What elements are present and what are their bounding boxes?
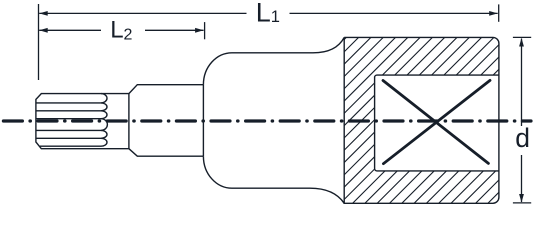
square drive hole left edge: [374, 78, 376, 169]
spline end arc 6: [101, 138, 107, 146]
holder outline bottom: [129, 149, 204, 157]
spline line 6: [40, 145, 101, 147]
centerline: [1, 119, 531, 122]
arrow L2 left: [39, 28, 48, 33]
spline line 5: [37, 137, 102, 139]
square drive hole bottom edge: [375, 169, 499, 171]
spline line 4: [37, 129, 102, 131]
extension line L2 right: [204, 22, 206, 39]
s-curve bottom: [310, 188, 344, 203]
bit body outline: [36, 94, 129, 149]
arrow L2 right: [195, 28, 204, 33]
spline line 1: [37, 102, 102, 104]
svg-text:L: L: [256, 0, 271, 28]
svg-text:1: 1: [271, 8, 280, 26]
arrowheads: [39, 11, 524, 203]
spline end arc 2: [101, 103, 107, 111]
svg-text:2: 2: [124, 27, 133, 44]
fillet top: [203, 53, 232, 85]
extension tick d top: [513, 36, 531, 38]
arrow d up: [519, 38, 524, 47]
holder outline top: [129, 85, 204, 94]
svg-text:d: d: [515, 123, 530, 153]
dimension lines: [39, 4, 532, 203]
socket body outline: [344, 37, 499, 203]
s-curve top: [313, 37, 344, 52]
spline line 2: [37, 110, 102, 112]
spline end arc 4: [101, 119, 107, 131]
dim line d: [521, 39, 523, 203]
svg-text:L: L: [110, 16, 123, 43]
extension line L1 right: [498, 4, 500, 21]
square drive hole top edge: [375, 75, 499, 77]
spline end arc 3: [101, 111, 107, 119]
spline line 3: [37, 118, 102, 120]
neck top edge: [232, 52, 313, 54]
spline end arc 1: [101, 94, 107, 103]
neck bottom edge: [232, 187, 310, 189]
spline end arc 5: [101, 130, 107, 138]
dim line L2: [39, 29, 203, 31]
dim line L1: [39, 12, 498, 14]
arrow d down: [519, 194, 524, 203]
drive square cross X: [383, 80, 490, 163]
holder end face: [202, 85, 204, 157]
extension line left: [38, 4, 40, 80]
arrow L1 right: [489, 11, 498, 16]
arrow L1 left: [39, 11, 48, 16]
fillet bottom: [203, 156, 232, 188]
extension tick d bottom: [513, 202, 531, 204]
